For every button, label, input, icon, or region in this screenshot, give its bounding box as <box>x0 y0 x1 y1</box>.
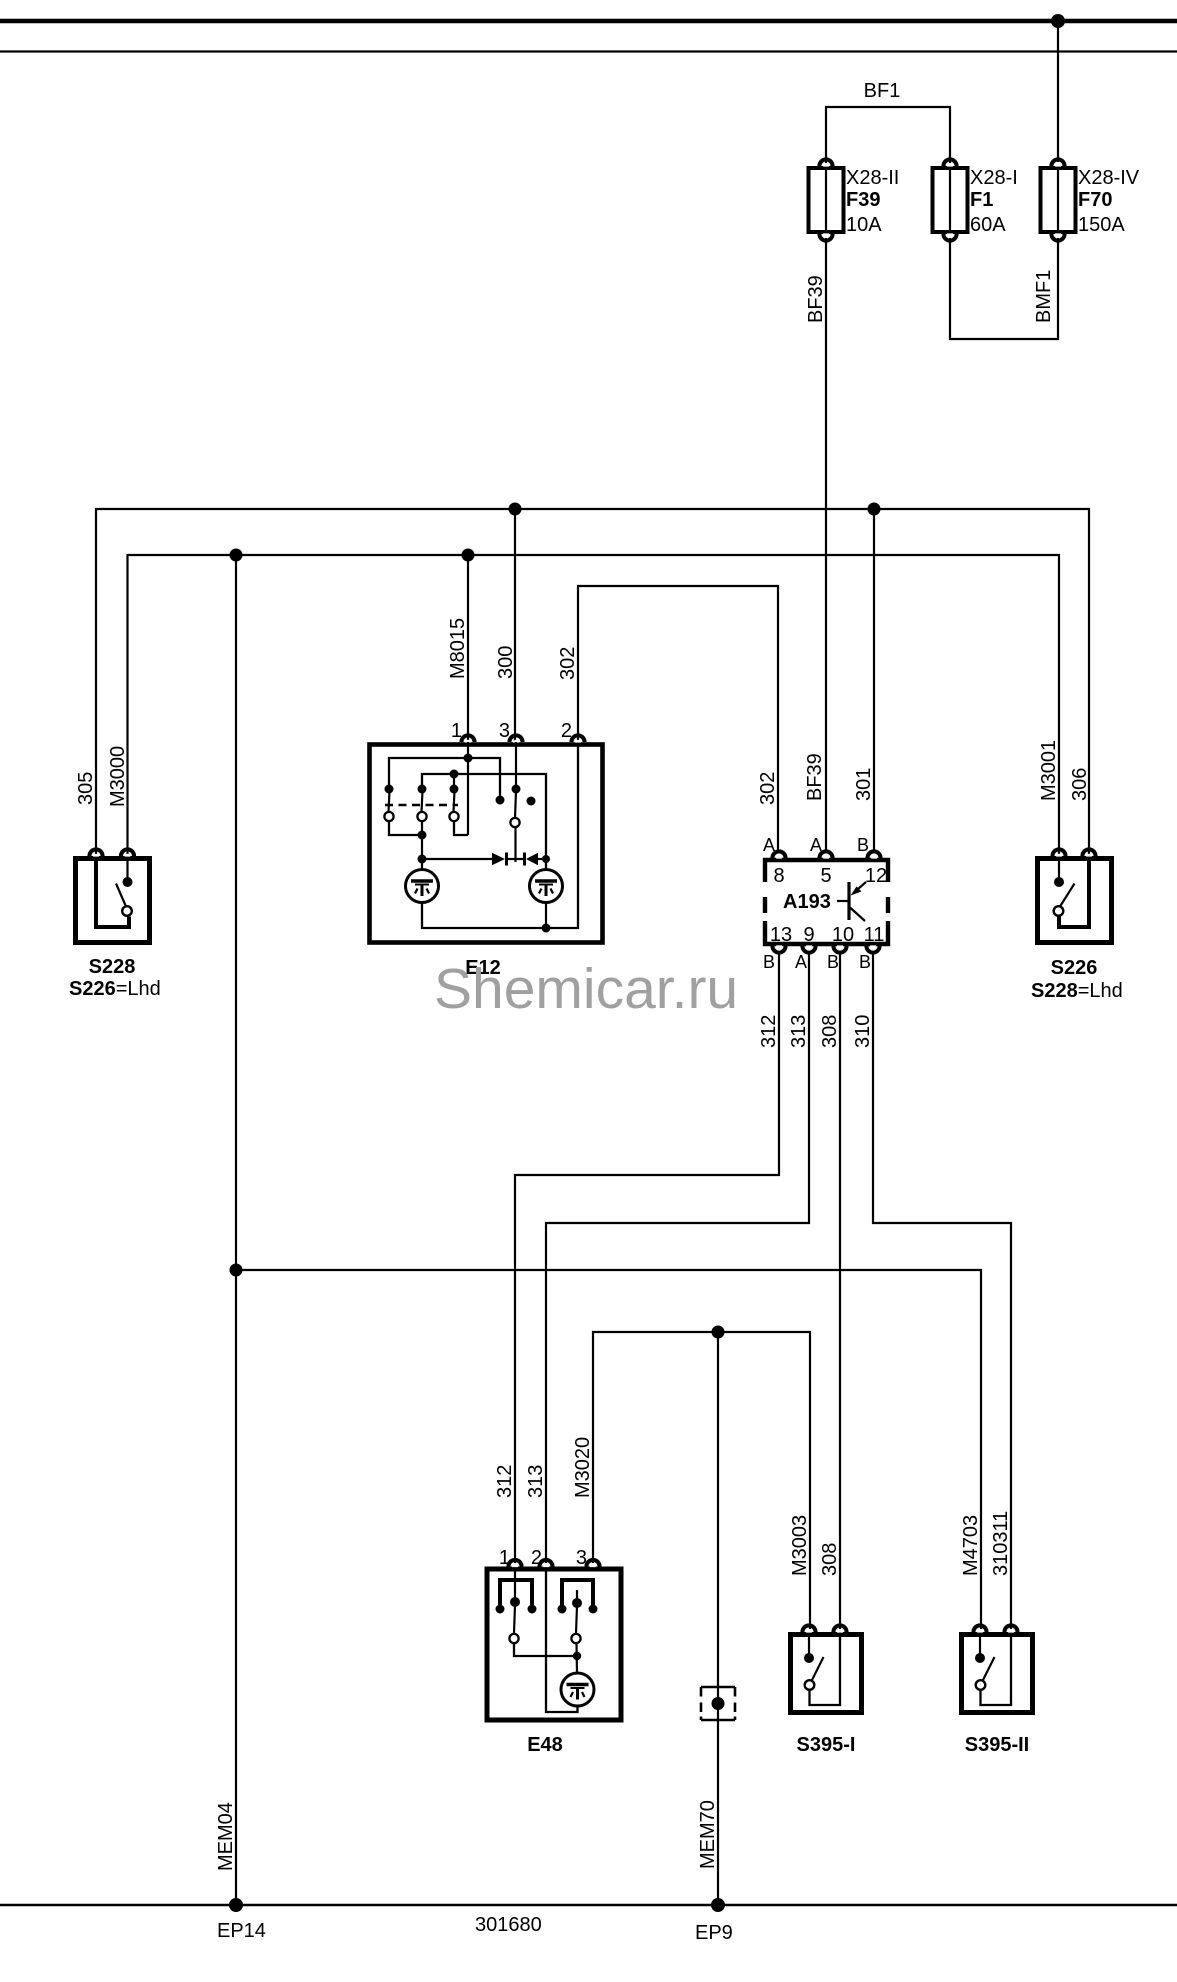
E12 lamp1 <box>406 870 439 903</box>
svg-text:3: 3 <box>576 1547 587 1569</box>
svg-text:EP9: EP9 <box>695 1922 733 1944</box>
fuse F1 60A X28-I <box>933 159 1018 240</box>
power rail second <box>0 50 1177 52</box>
wire rail to F70 <box>1057 21 1059 162</box>
svg-text:S226: S226 <box>1051 957 1098 979</box>
wire M3020/M3003 net <box>593 1332 810 1629</box>
S395-II pin 1 <box>973 1625 986 1632</box>
svg-text:302: 302 <box>757 772 779 805</box>
E12 junction diode/lamp2 <box>542 855 550 863</box>
svg-text:E48: E48 <box>527 1734 563 1756</box>
terminal MEM70 box <box>701 1687 735 1720</box>
E48 switch2 blade <box>576 1606 577 1633</box>
E12 switch pin3 left contact <box>496 796 505 805</box>
wire M4703 branch to S395-II <box>236 1270 981 1629</box>
svg-text:A193: A193 <box>783 891 831 913</box>
S228 pin 2 <box>121 849 134 856</box>
svg-text:10A: 10A <box>846 214 882 236</box>
svg-text:BF39: BF39 <box>804 753 826 801</box>
wire 301 A193 pin 12 to net1 <box>873 509 875 851</box>
svg-text:310: 310 <box>852 1015 874 1048</box>
wire MEM70 vertical <box>717 1332 719 1905</box>
svg-text:12: 12 <box>865 865 887 887</box>
svg-text:10: 10 <box>832 924 854 946</box>
E48 lamp bottom to pin2 <box>546 1569 578 1712</box>
svg-text:A: A <box>810 835 822 855</box>
S226 pin 1 <box>1052 849 1065 856</box>
S226 blade <box>1060 884 1075 907</box>
wire BF39 fuse F39 to A193 pin 5 <box>825 238 827 851</box>
svg-text:313: 313 <box>788 1015 810 1048</box>
svg-text:S226=Lhd: S226=Lhd <box>69 978 161 1000</box>
svg-text:313: 313 <box>525 1465 547 1498</box>
E12 junction switch3/L2 <box>453 774 455 789</box>
S395-I blade <box>812 1657 824 1681</box>
svg-text:308: 308 <box>819 1543 841 1576</box>
switch S228 box <box>76 859 150 943</box>
svg-text:X28-IV: X28-IV <box>1078 167 1140 189</box>
svg-text:1: 1 <box>499 1547 510 1569</box>
E12 diode row <box>422 858 492 860</box>
svg-text:F70: F70 <box>1078 189 1112 211</box>
wire 302 E12 pin 2 to A193 pin 8 <box>578 586 778 851</box>
fuse F70 150A X28-IV <box>1041 159 1140 240</box>
S395-I inner link <box>810 1634 841 1705</box>
svg-text:5: 5 <box>820 865 831 887</box>
svg-text:MEM70: MEM70 <box>697 1800 719 1869</box>
S395-II contact circle <box>976 1680 986 1690</box>
svg-text:9: 9 <box>803 924 814 946</box>
junction MEM04 / M4703 branch <box>230 1264 243 1277</box>
junction M3020/MEM70 <box>712 1326 725 1339</box>
svg-text:S228: S228 <box>89 956 136 978</box>
svg-text:8: 8 <box>773 865 784 887</box>
E12 junction lamp2 bottom <box>542 924 551 933</box>
E12 junction diode/lamp1 <box>418 855 427 864</box>
svg-text:S228=Lhd: S228=Lhd <box>1031 980 1123 1002</box>
switch S395-I box <box>791 1635 862 1713</box>
S395-I pin 2 <box>833 1625 846 1632</box>
wire M8015 drop to E12 pin 1 <box>467 555 469 745</box>
svg-text:312: 312 <box>758 1015 780 1048</box>
E48 pin 1 <box>499 1547 522 1569</box>
svg-text:302: 302 <box>557 647 579 680</box>
S395-I contact circle <box>805 1680 815 1690</box>
wire MEM04 vertical <box>235 555 237 1905</box>
wire 312 A193 pin13 to E48 pin1 <box>515 951 779 1563</box>
svg-text:3: 3 <box>499 720 510 742</box>
S228 blade <box>116 884 126 907</box>
S228 contact dot <box>126 858 128 878</box>
svg-text:M3001: M3001 <box>1038 740 1060 801</box>
svg-text:306: 306 <box>1069 768 1091 801</box>
svg-text:60A: 60A <box>970 214 1006 236</box>
E48 contact bar 1 <box>500 1580 532 1607</box>
E12 switch pole3 <box>450 785 459 794</box>
svg-text:Shemicar.ru: Shemicar.ru <box>434 957 738 1021</box>
A193 pin 9 <box>795 924 816 972</box>
wire net 305/300/301/306 horizontal <box>96 509 1089 861</box>
E12 switch pole1 <box>385 785 394 794</box>
S395-II blade <box>983 1657 995 1681</box>
switch S226 box <box>1038 859 1112 943</box>
wire 313 A193 pin9 to E48 pin2 <box>546 951 809 1563</box>
junction net2 at MEM04 <box>230 549 243 562</box>
E12 switch pin3 right contact <box>527 797 536 806</box>
E48 lamp <box>561 1673 594 1706</box>
E12 pin 3 <box>499 720 523 743</box>
switch S395-II box <box>962 1635 1033 1713</box>
E12 linkage dashed <box>385 804 458 806</box>
S395-II pin 2 <box>1004 1625 1017 1632</box>
E48 switch1 blade <box>514 1605 515 1633</box>
svg-text:S395-I: S395-I <box>797 1734 856 1756</box>
svg-text:11: 11 <box>864 924 885 946</box>
E48 switch2 to lamp <box>575 1643 578 1673</box>
switch unit E48 box <box>487 1569 621 1720</box>
svg-text:MEM04: MEM04 <box>215 1802 237 1871</box>
E12 switch pin3 common <box>515 742 517 789</box>
svg-text:301: 301 <box>853 768 875 801</box>
svg-text:312: 312 <box>494 1465 516 1498</box>
S395-I contact dot <box>808 1634 810 1654</box>
svg-text:M3003: M3003 <box>789 1515 811 1576</box>
svg-text:B: B <box>827 952 839 972</box>
A193 pin 12 <box>857 835 887 887</box>
A193 pin 11 <box>859 924 884 972</box>
A193 pin 13 <box>763 924 792 972</box>
S395-I pin 1 <box>802 1625 815 1632</box>
wire BMF1 (F1/F70 bottoms) <box>950 238 1058 339</box>
E12 switch pole2 <box>418 785 427 794</box>
E12 wire L2 <box>422 774 546 870</box>
svg-text:308: 308 <box>819 1015 841 1048</box>
E12 lamp2 <box>530 870 563 903</box>
junction net1 at wire 300 <box>509 503 522 516</box>
svg-text:1: 1 <box>451 720 462 742</box>
svg-text:X28-I: X28-I <box>970 167 1018 189</box>
E48 contact bar 2 <box>562 1580 593 1607</box>
A193 pin 10 <box>827 924 854 972</box>
svg-text:301680: 301680 <box>475 1914 542 1936</box>
S228 inner link <box>96 859 129 927</box>
svg-text:310311: 310311 <box>990 1511 1012 1576</box>
E48 switch1 common <box>514 1569 516 1598</box>
wire net M3000/M8015/M3001 horizontal <box>128 555 1060 861</box>
S395-II inner link <box>981 1634 1012 1705</box>
E48 pin 2 <box>531 1547 553 1569</box>
E12 wire L1 <box>389 758 500 796</box>
S226 pin 2 <box>1082 849 1095 856</box>
E12 lamp bottoms to pin2 <box>422 745 578 928</box>
relay A193 box <box>763 860 890 944</box>
A193 pin 5 <box>810 835 833 887</box>
junction EP9 <box>711 1898 725 1912</box>
power rail top thick <box>0 19 1177 23</box>
S226 inner link <box>1059 859 1089 927</box>
E12 pole2 bottom junction <box>421 821 423 869</box>
wire 308 A193 pin10 to S395-I <box>839 951 841 1629</box>
svg-text:BF39: BF39 <box>805 275 827 323</box>
svg-text:F1: F1 <box>970 189 993 211</box>
svg-text:S395-II: S395-II <box>965 1734 1029 1756</box>
svg-text:M3000: M3000 <box>107 746 129 807</box>
E48 switch2 common stub <box>576 1590 578 1600</box>
svg-text:B: B <box>857 835 869 855</box>
svg-text:BF1: BF1 <box>864 80 901 102</box>
fuse F39 10A X28-II <box>809 159 900 240</box>
svg-text:F39: F39 <box>846 189 880 211</box>
svg-text:2: 2 <box>531 1547 542 1569</box>
E12 junction pin1/L1 <box>467 742 469 835</box>
E48 switch1 route <box>514 1643 577 1656</box>
E12 diode D1 <box>492 853 505 865</box>
A193 pin 8 <box>763 835 786 887</box>
svg-text:M8015: M8015 <box>447 618 469 679</box>
S228 pin 1 <box>89 849 102 856</box>
ground rail bottom <box>0 1904 1177 1907</box>
svg-text:2: 2 <box>561 720 572 742</box>
E48 pin 3 <box>576 1547 600 1569</box>
junction on top rail <box>1051 14 1065 28</box>
junction net1 at wire 301 <box>868 503 881 516</box>
svg-text:150A: 150A <box>1078 214 1125 236</box>
wire BF1 <box>826 107 950 163</box>
svg-text:A: A <box>763 835 775 855</box>
svg-text:B: B <box>763 952 775 972</box>
E12 diode D2 <box>523 853 526 866</box>
svg-text:B: B <box>859 952 871 972</box>
wire 310 A193 pin11 to S395-II <box>873 951 1011 1629</box>
S228 contact circle <box>122 906 132 916</box>
S395-II contact dot <box>979 1634 981 1654</box>
svg-text:305: 305 <box>75 772 97 805</box>
E12 switch pin3 blade <box>515 791 516 818</box>
svg-text:M3020: M3020 <box>572 1437 594 1498</box>
svg-text:300: 300 <box>495 646 517 679</box>
instrument E12 box <box>370 745 603 943</box>
E12 pin 1 <box>451 720 475 743</box>
svg-text:A: A <box>795 952 807 972</box>
junction EP14 <box>229 1898 243 1912</box>
svg-text:13: 13 <box>770 924 792 946</box>
E12 switch pin3 to diodes <box>514 827 516 862</box>
E12 pole3 bottom route <box>454 821 468 835</box>
svg-text:BMF1: BMF1 <box>1033 270 1055 323</box>
svg-text:EP14: EP14 <box>217 1920 266 1942</box>
svg-text:M4703: M4703 <box>960 1515 982 1576</box>
svg-text:X28-II: X28-II <box>846 167 899 189</box>
wire 300 drop to E12 pin 3 <box>514 509 516 745</box>
E12 pole1 bottom route <box>389 821 422 835</box>
junction net2 at M8015 <box>462 549 475 562</box>
S226 contact dot <box>1058 858 1060 878</box>
S226 contact circle <box>1054 906 1064 916</box>
E12 pin 2 <box>561 720 585 743</box>
A193 transistor symbol <box>837 882 866 921</box>
